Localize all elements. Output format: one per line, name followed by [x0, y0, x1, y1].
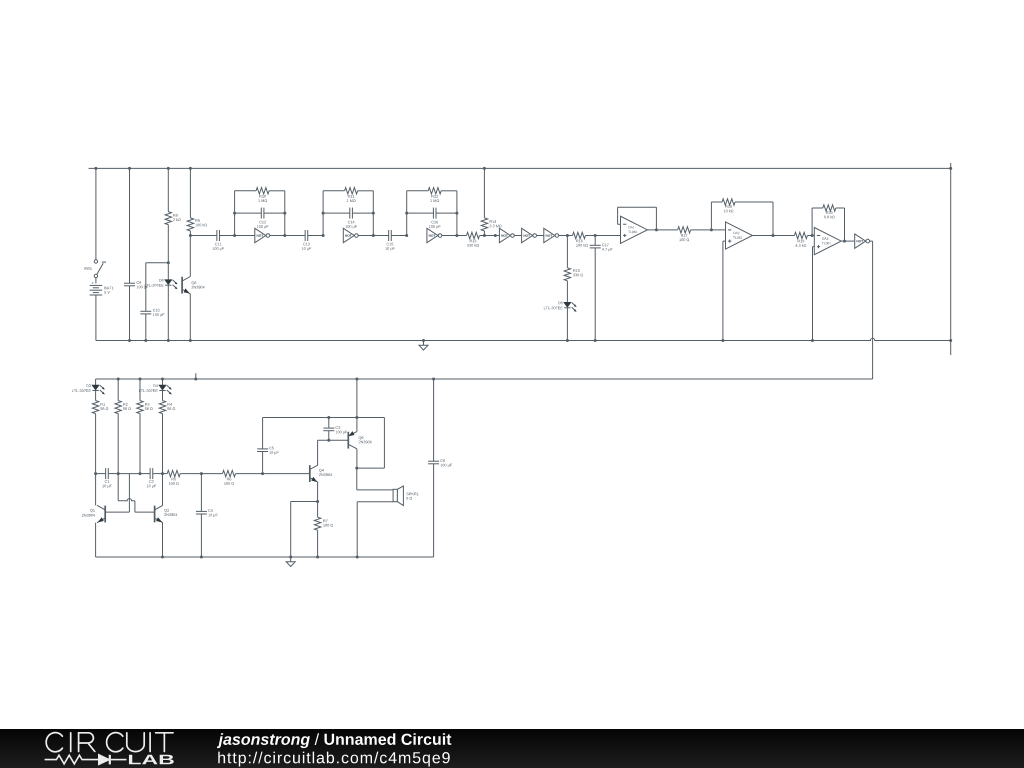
footer black bar — [0, 729, 1024, 768]
wire gate4 to gate5 — [515, 235, 522, 237]
wire C1 node to C2 node — [118, 473, 140, 475]
wire switch to battery — [95, 278, 97, 284]
wire Q2 emitter to bottom rail — [162, 523, 164, 557]
resistor R3 56 Ohm — [139, 379, 141, 401]
junction oscillator stage 3 right mid — [455, 212, 458, 215]
junction bottom rail / ground spur — [289, 556, 292, 559]
oscillator stage 3 feedback box wires — [406, 191, 408, 236]
resistor R15 330 Ohm — [566, 236, 568, 268]
resistor R13 330 kOhm — [467, 232, 480, 238]
junction top rail / R8 — [167, 167, 170, 170]
NOT gate buffer 3 — [544, 228, 555, 242]
junction ground rail / OA2 +input — [721, 339, 724, 342]
wire bottom section top row — [96, 378, 873, 380]
ground symbol bottom section — [290, 557, 292, 562]
junction C3 / Q6 base — [327, 439, 330, 442]
junction bottom rail / C4 — [200, 556, 203, 559]
capacitor C14 100 µF — [349, 208, 351, 219]
wire Q6 emitter up — [356, 418, 358, 432]
wire Q4 collector up — [317, 440, 319, 465]
wire branch drop from top row — [356, 379, 358, 418]
resistor R19 4.3 kOhm — [794, 232, 807, 238]
footer title line — [217, 733, 310, 748]
junction oscillator stage 2 right mid — [372, 212, 375, 215]
junction signal / C17 branch — [594, 234, 597, 237]
wire signal row segment Q8 to C11 — [190, 235, 216, 237]
wire upper branch horizontal — [263, 417, 385, 419]
resistor R11 1 MΩ — [345, 188, 358, 194]
junction ground rail / C9 — [128, 339, 131, 342]
LED D5 LTL-307EE — [564, 303, 570, 307]
junction OA3 inverting input / feedback — [811, 234, 814, 237]
junction top row / drop — [355, 378, 358, 381]
phototransistor Q8 2N3904 — [189, 236, 191, 277]
node signal input / R9 / Q8 — [189, 234, 192, 237]
wire Q6 collector down — [356, 449, 358, 468]
junction R1 / C1 row / Q1 collector — [94, 472, 97, 475]
logo text CIRCUIT — [46, 733, 62, 752]
capacitor C3 100 uF — [328, 418, 330, 429]
resistor R12 1 MΩ — [428, 188, 441, 194]
wire battery to ground rail — [95, 295, 97, 341]
junction oscillator stage 2 left mid — [322, 212, 325, 215]
oscillator stage 2 feedback box wires — [322, 191, 324, 236]
capacitor C12 100 µF — [260, 208, 262, 219]
capacitor C10 100 uF column — [145, 263, 147, 312]
junction oscillator stage 1 left mid — [233, 212, 236, 215]
LED D4 LTL-307EE — [162, 379, 164, 385]
resistor R20 6.8 kOhm — [823, 205, 836, 211]
junction OA1 output / feedback — [655, 228, 658, 231]
logo resistor-diode glyph — [45, 755, 99, 764]
resistor R5 100 Ohm — [163, 473, 168, 475]
junction oscillator stage 2 right signal — [372, 234, 375, 237]
wire OA3 output — [841, 240, 855, 242]
LED D6 LTL-307EE — [167, 263, 169, 280]
resistor R7 100 Ohm — [317, 502, 319, 518]
NOT gate buffer 1 — [499, 228, 510, 242]
wire bottom rail — [96, 556, 434, 558]
junction oscillator stage 1 right signal — [283, 234, 286, 237]
junction Q6 collector / speaker top — [355, 467, 358, 470]
wire oscillator stage 3 gate output — [442, 235, 457, 237]
junction drop / upper branch — [355, 416, 358, 419]
capacitor C5 10 uF — [262, 452, 264, 474]
junction before buffer gates — [494, 234, 497, 237]
junction signal / R14 — [483, 234, 486, 237]
capacitor C9 100 uF column — [129, 168, 131, 283]
resistor R10 1 MΩ — [256, 188, 269, 194]
junction top row / C6 — [432, 378, 435, 381]
wire Q1 emitter to bottom rail — [95, 523, 97, 557]
wire speaker bottom lead — [357, 501, 393, 503]
resistor R16 100 kOhm — [573, 232, 586, 238]
junction ground rail / C10 — [144, 339, 147, 342]
wire R16 to opamp — [586, 235, 621, 237]
junction signal / D5 branch — [566, 234, 569, 237]
op-amp OA2 TL081 — [726, 222, 753, 249]
wire R18 to OA2 output — [735, 201, 773, 203]
junction OA2 output / feedback — [772, 234, 775, 237]
ground symbol top section — [423, 341, 425, 346]
capacitor C6 100 uF — [433, 379, 435, 461]
LED D3 LTL-307EE — [95, 379, 97, 385]
wire OA3 non-inverting to ground — [813, 246, 815, 248]
resistor R8 2 kOhm — [167, 168, 169, 211]
wire Q2 collector — [162, 474, 164, 506]
NOT gate output buffer — [855, 234, 866, 248]
NOT gate buffer 2 — [522, 228, 533, 242]
capacitor C13 10 uF — [304, 230, 306, 241]
junction oscillator stage 1 left signal — [233, 234, 236, 237]
junction top row / R2 — [117, 378, 120, 381]
capacitor C2 10 uF — [140, 473, 150, 475]
wire R20 to OA3 output — [836, 207, 845, 209]
junction ground rail / right rail — [949, 339, 952, 342]
junction row / C4 — [200, 472, 203, 475]
resistor R9 100 kOhm — [189, 168, 191, 218]
capacitor C4 10 uF — [200, 474, 202, 512]
resistor R2 56 Ohm — [117, 379, 119, 401]
transistor Q1 2N3904 — [104, 506, 106, 523]
wire C15 to stage 3 — [391, 235, 406, 237]
junction R4 / row / Q2 collector — [161, 472, 164, 475]
wire OA2 feedback loop — [710, 202, 712, 230]
wire right rail — [950, 163, 952, 355]
junction top rail / R14 — [483, 167, 486, 170]
wire Q1 collector — [95, 474, 97, 506]
junction row / C5 — [261, 472, 264, 475]
junction bottom rail / speaker — [356, 556, 359, 559]
wire cross-coupling base Q1 — [105, 511, 129, 513]
junction oscillator stage 2 left signal — [322, 234, 325, 237]
wire Q6 base row — [318, 439, 349, 441]
wire OA2 non-inverting to ground — [723, 240, 726, 242]
junction Q4 emitter / R7 / ground spur — [316, 500, 319, 503]
transistor Q2 2N3904 — [154, 506, 156, 523]
wire OA1 feedback loop — [618, 223, 621, 225]
speaker SPKR1 8 Ohm — [393, 489, 397, 501]
junction oscillator stage 1 right mid — [283, 212, 286, 215]
wire gate7 output to bottom section — [870, 240, 873, 242]
wire top supply rail — [89, 167, 951, 169]
capacitor C1 10 uF — [96, 473, 106, 475]
junction top rail / R9 — [189, 167, 192, 170]
resistor R17 100 Ohm — [678, 227, 691, 233]
capacitor C16 100 µF — [432, 208, 434, 219]
wire R19 to OA3 — [807, 235, 814, 237]
resistor R18 10 kOhm — [722, 199, 735, 205]
switch SW1 — [94, 260, 97, 263]
junction ground rail / D6 — [167, 339, 170, 342]
wire cross-coupling base Q2 with hop — [117, 474, 119, 501]
wire C13 to stage 2 — [308, 235, 323, 237]
junction oscillator stage 3 right signal — [455, 234, 458, 237]
junction top row / D4 — [161, 378, 164, 381]
capacitor C15 10 uF — [388, 230, 390, 241]
wire stage3 to R13 — [457, 235, 467, 237]
junction R3 / C2 left — [139, 472, 142, 475]
junction ground rail / C17 — [594, 339, 597, 342]
junction ground rail / Q8 emitter — [189, 339, 192, 342]
wire C11 to stage 1 — [219, 235, 254, 237]
wire outer loop right side — [383, 418, 385, 469]
wire stage1 to C13 — [285, 235, 305, 237]
NOT gate inverter of oscillator stage 1 — [255, 228, 266, 242]
battery BAT1 5 V — [92, 282, 94, 284]
wire R13 to R14 node — [480, 235, 500, 237]
logo text LAB — [129, 755, 174, 765]
wire stage2 to C15 — [373, 235, 388, 237]
junction top rail / right rail — [949, 167, 952, 170]
wire battery column top — [95, 168, 97, 259]
resistor R4 56 Ohm — [159, 401, 165, 414]
junction upper branch / C3 — [327, 416, 330, 419]
wire gate5 to gate6 — [537, 235, 544, 237]
wire OA1 output — [647, 229, 677, 231]
wire ground spur — [291, 501, 318, 503]
wire row to Q4 base — [263, 473, 310, 475]
resistor R6 100 Ohm — [201, 473, 222, 475]
junction top row / R3 — [139, 378, 142, 381]
resistor R1 56 Ohm — [92, 401, 98, 414]
op-amp OA3 TL081 — [814, 228, 841, 255]
wire oscillator stage 1 gate output — [270, 235, 285, 237]
junction bottom rail / Q2 emitter — [161, 556, 164, 559]
capacitor C17 4.7 uF — [594, 236, 596, 246]
junction ground rail / OA3 +input — [811, 339, 814, 342]
junction R8 / C10 tap — [167, 261, 170, 264]
junction oscillator stage 3 left mid — [405, 212, 408, 215]
junction top rail / C9 — [128, 167, 131, 170]
wire Q4 emitter down — [317, 482, 319, 501]
junction OA2 inverting input / feedback — [710, 228, 713, 231]
transistor Q6 2N3906 — [347, 432, 349, 449]
junction R2 / C1 right — [117, 472, 120, 475]
NOT gate inverter of oscillator stage 2 — [343, 228, 354, 242]
wire ground rail (middle) with hop over output wire — [96, 338, 951, 340]
wire R17 to OA2 — [691, 229, 726, 231]
junction oscillator stage 3 left signal — [405, 234, 408, 237]
wire OA3 feedback loop — [811, 208, 813, 236]
wire gate6 to R16 — [559, 235, 573, 237]
transistor Q4 2N3904 — [309, 465, 311, 482]
footer url line — [218, 752, 449, 767]
junction bottom rail / R7 — [316, 556, 319, 559]
wire oscillator stage 2 gate output — [358, 235, 373, 237]
oscillator stage 1 feedback box wires — [234, 191, 236, 236]
junction OA3 output / feedback — [843, 240, 846, 243]
NOT gate inverter of oscillator stage 3 — [427, 228, 438, 242]
wire OA2 output — [752, 235, 794, 237]
node flag 1 — [195, 373, 197, 379]
resistor R14 3.3 MOhm pull-up — [483, 168, 485, 218]
junction ground rail / D5 — [566, 339, 569, 342]
wire speaker top lead — [356, 468, 358, 490]
junction top rail / battery column — [94, 167, 97, 170]
op-amp OA1 TL081 — [621, 216, 648, 243]
capacitor C11 100 uF — [216, 230, 218, 241]
